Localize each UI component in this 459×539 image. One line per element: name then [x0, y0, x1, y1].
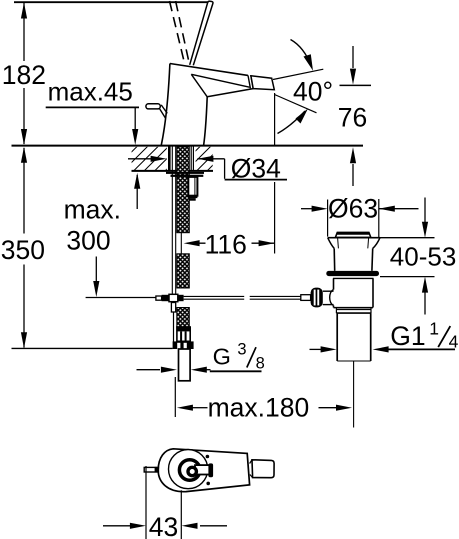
svg-text:max.45: max.45	[48, 77, 133, 107]
svg-text:max.180: max.180	[208, 393, 310, 423]
svg-text:Ø63: Ø63	[328, 194, 378, 224]
svg-text:G1: G1	[390, 321, 425, 351]
svg-text:76: 76	[338, 103, 367, 133]
svg-text:G: G	[213, 343, 231, 369]
svg-text:4: 4	[449, 331, 459, 351]
svg-text:40-53: 40-53	[390, 242, 457, 272]
svg-text:3: 3	[237, 341, 246, 359]
svg-text:40°: 40°	[293, 76, 333, 106]
svg-text:Ø34: Ø34	[231, 153, 281, 183]
svg-text:182: 182	[2, 60, 46, 90]
svg-text:116: 116	[205, 230, 247, 260]
svg-text:8: 8	[256, 354, 265, 372]
svg-text:max.: max.	[64, 195, 121, 225]
svg-text:350: 350	[1, 235, 45, 265]
svg-text:43: 43	[149, 512, 178, 539]
svg-text:1: 1	[429, 318, 439, 338]
svg-text:300: 300	[66, 225, 110, 255]
